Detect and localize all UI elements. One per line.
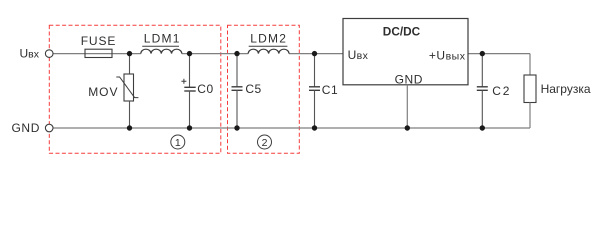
fuse FUSE [85,49,112,57]
svg-text:Uвх: Uвх [20,46,40,60]
capacitor C0 (polarized) [189,54,191,88]
svg-text:GND: GND [12,121,40,135]
wire: bottom rail [53,127,530,129]
svg-text:MOV: MOV [88,85,118,99]
junction C2 top [480,51,485,56]
svg-text:C2: C2 [492,84,511,98]
svg-text:LDM1: LDM1 [144,31,181,45]
DC/DC converter U1 [343,19,468,85]
svg-text:Uвх: Uвх [348,48,369,62]
svg-text:GND: GND [395,72,423,86]
terminal Uvx [45,50,53,58]
svg-text:Нагрузка: Нагрузка [541,82,591,96]
svg-text:DC/DC: DC/DC [383,25,421,39]
stage number 2 [258,135,272,149]
wire: top rail output [468,53,530,55]
junction C1 top [312,51,317,56]
svg-text:+Uвых: +Uвых [429,49,466,63]
capacitor C5 [236,54,238,87]
svg-text:C0: C0 [197,82,213,96]
filter stage box 1 (red dashed) [49,25,221,153]
capacitor C1 [314,54,316,87]
junction C5 top [234,51,239,56]
junction C1 bottom [312,125,317,130]
junction MOV bottom [127,125,132,130]
svg-text:2: 2 [262,137,268,149]
svg-text:C1: C1 [322,83,338,97]
wire: GND pin down [406,85,408,128]
junction C0 top [187,51,192,56]
inductor LDM2 [248,46,289,53]
junction C0 bottom [187,125,192,130]
svg-text:C5: C5 [245,82,261,96]
junction GND pin bottom [405,125,410,130]
junction MOV top [127,51,132,56]
junction C5 bottom [234,125,239,130]
load resistor (Нагрузка) [529,54,531,75]
filter stage box 2 (red dashed) [228,25,300,153]
varistor MOV [129,54,131,74]
junction C2 bottom [480,125,485,130]
stage number 1 [171,135,185,149]
capacitor C2 [481,54,483,87]
terminal GND [45,124,53,132]
svg-text:LDM2: LDM2 [250,32,287,46]
inductor LDM1 [141,46,182,53]
svg-text:FUSE: FUSE [81,34,117,48]
wire: top rail input [53,53,141,55]
svg-text:1: 1 [175,137,181,149]
